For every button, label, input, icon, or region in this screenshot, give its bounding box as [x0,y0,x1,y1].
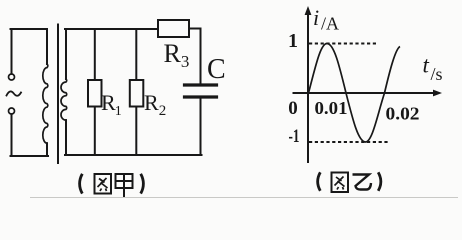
wire R3 to corner [189,28,201,30]
svg-text:0: 0 [288,98,298,119]
wire primary bottom [11,155,49,157]
wire secondary bottom [65,154,202,156]
primary coil L1 [43,64,48,143]
wire primary top [11,28,48,30]
svg-text:C: C [207,54,226,85]
svg-text:-1: -1 [289,126,300,147]
t axis arrowhead [433,90,442,97]
caption 图 (tu) of 图甲 [95,174,112,194]
wire R1 branch lower [94,107,96,156]
caption (图乙) left paren [318,172,321,191]
svg-text:t: t [423,53,430,78]
caption (图乙) right paren [378,172,381,191]
caption 甲 (jia) of 图甲 [116,174,133,197]
svg-text:R2: R2 [144,90,166,119]
svg-text:/s: /s [431,64,443,84]
terminal upper [9,74,15,80]
graph t axis [293,92,437,94]
secondary coil L2 [61,79,67,120]
scan artifact line bottom [30,197,458,199]
caption (图甲) right paren [141,174,144,194]
svg-text:0.02: 0.02 [386,104,420,124]
resistor R2 [130,80,144,107]
wire primary left lower [11,114,13,156]
svg-text:0.01: 0.01 [315,98,348,118]
caption (图甲) left paren [80,174,83,194]
terminal lower [9,108,15,114]
svg-text:i: i [313,5,319,30]
svg-text:1: 1 [288,30,298,52]
caption 乙 (yi) of 图乙 [353,175,372,190]
wire capacitor branch upper [200,29,202,84]
capacitor C top plate [185,83,217,86]
sine curve [309,44,401,143]
wire primary right lower [46,143,48,156]
wire secondary left upper [65,29,67,79]
dashed line -1 [309,141,390,143]
capacitor C bottom plate [185,95,217,98]
wire R1 branch upper [94,29,96,80]
wire primary left upper [11,29,13,74]
svg-text:R1: R1 [101,90,122,119]
wire R2 branch lower [135,107,137,156]
wire primary right upper [46,29,48,64]
wire secondary left lower [65,120,67,155]
dashed line +1 [309,43,376,45]
svg-text:/A: /A [321,14,339,34]
transformer core [57,25,59,164]
wire secondary top [65,28,158,30]
wire capacitor branch lower [200,99,202,156]
svg-text:R3: R3 [164,39,190,71]
i axis arrowhead [305,6,312,15]
resistor R3 [158,20,189,37]
wire R2 branch upper [135,29,137,80]
caption 图 (tu) of 图乙 [332,173,349,193]
resistor R1 [88,80,102,107]
graph i axis [307,10,309,163]
AC source tilde [7,91,22,95]
